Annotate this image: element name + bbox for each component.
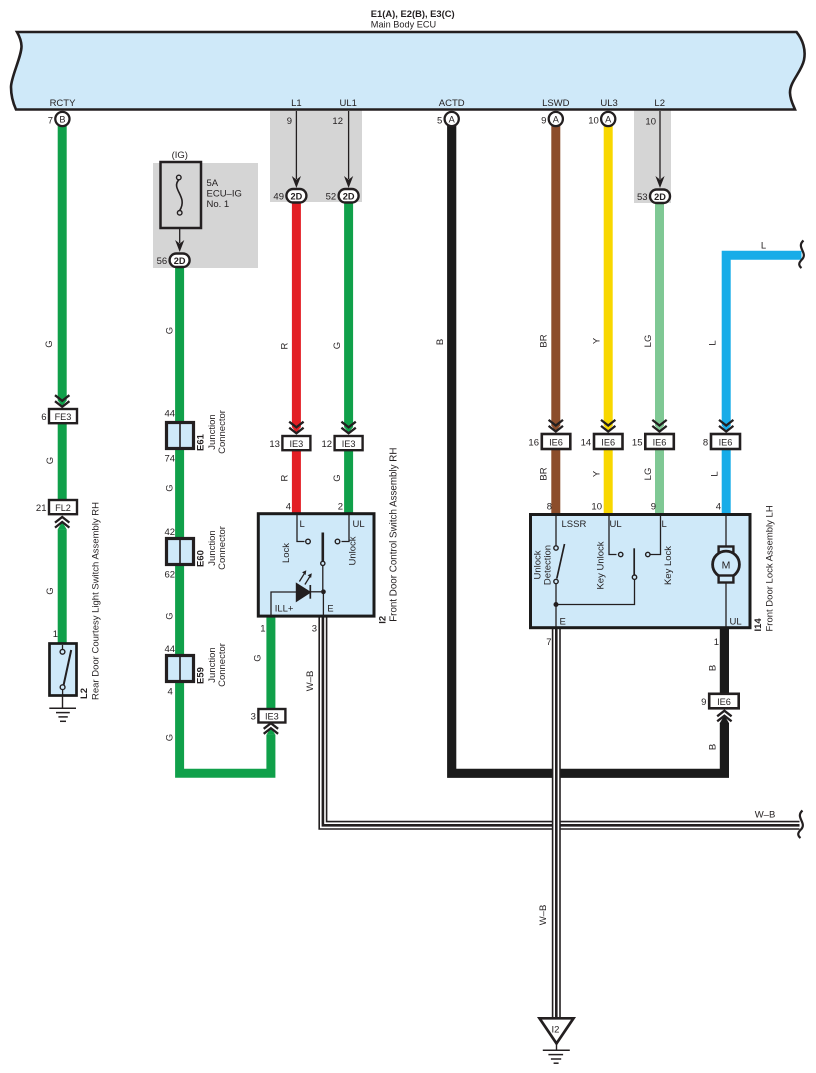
chevrons above 8 IE6 <box>719 420 733 432</box>
chevrons below 9 IE6 <box>717 711 731 722</box>
ground rear door switch <box>49 695 76 721</box>
svg-text:56: 56 <box>157 256 168 267</box>
svg-text:L2: L2 <box>79 688 90 699</box>
svg-text:Key Lock: Key Lock <box>663 546 674 585</box>
svg-text:5A: 5A <box>207 178 219 189</box>
connector 15 IE6 <box>645 434 674 449</box>
svg-text:Y: Y <box>592 337 603 344</box>
connector 13 IE3 <box>282 436 310 450</box>
main body ECU band <box>11 32 805 110</box>
E bus to key switch <box>556 580 635 605</box>
switch blade I2 <box>321 533 324 562</box>
svg-text:10: 10 <box>591 502 602 513</box>
svg-text:ECU–IG: ECU–IG <box>207 189 242 200</box>
svg-text:3: 3 <box>312 624 317 635</box>
svg-text:E60: E60 <box>196 550 207 567</box>
svg-text:E59: E59 <box>196 667 207 684</box>
svg-text:IE3: IE3 <box>342 439 356 449</box>
svg-text:IE6: IE6 <box>719 438 733 448</box>
svg-text:G: G <box>165 484 176 491</box>
svg-text:62: 62 <box>165 570 176 581</box>
motor M <box>725 516 727 547</box>
svg-text:E1(A), E2(B), E3(C): E1(A), E2(B), E3(C) <box>371 8 455 19</box>
connector 12 IE3 <box>335 436 363 450</box>
pin 9 L lead <box>646 552 650 556</box>
svg-text:L: L <box>710 471 721 476</box>
pin 4 L lead <box>297 515 305 542</box>
svg-text:L1: L1 <box>291 98 302 109</box>
svg-text:1: 1 <box>260 624 265 635</box>
svg-text:3: 3 <box>251 712 256 723</box>
svg-text:LSWD: LSWD <box>542 98 570 109</box>
pin 8 LSSR lead <box>555 516 557 546</box>
gray block fuse area <box>153 163 258 268</box>
svg-text:1: 1 <box>53 629 58 640</box>
chevrons above 13 IE3 <box>289 422 303 434</box>
LED arrows <box>299 574 304 582</box>
svg-text:A: A <box>605 115 612 125</box>
wire green riser to ILL+ <box>266 616 275 710</box>
connector 53 2D <box>650 190 670 204</box>
svg-text:BR: BR <box>539 334 550 347</box>
svg-text:2D: 2D <box>343 192 355 202</box>
pin circle 5 A <box>445 112 459 126</box>
wire RCTY green vertical <box>58 122 67 401</box>
svg-text:2: 2 <box>338 502 343 513</box>
svg-text:G: G <box>44 340 55 347</box>
wire W-B from I14 pin 7 to ground <box>552 627 561 1019</box>
svg-text:10: 10 <box>645 117 656 128</box>
chevrons below 3 IE3 <box>264 723 278 734</box>
svg-text:W–B: W–B <box>305 671 316 692</box>
svg-text:7: 7 <box>546 637 551 648</box>
chevrons above 15 IE6 <box>652 420 666 432</box>
svg-text:L: L <box>761 241 766 252</box>
svg-text:Rear Door Courtesy Light Switc: Rear Door Courtesy Light Switch Assembly… <box>91 502 102 700</box>
svg-text:Unlock: Unlock <box>347 536 358 565</box>
svg-text:I2: I2 <box>378 616 389 624</box>
svg-text:UL: UL <box>730 617 742 628</box>
svg-text:ACTD: ACTD <box>439 98 465 109</box>
svg-text:74: 74 <box>165 454 176 465</box>
svg-text:IE6: IE6 <box>653 438 667 448</box>
chevrons below FL2 <box>55 517 69 528</box>
chevrons above 16 IE6 <box>549 420 563 432</box>
svg-text:12: 12 <box>322 439 333 450</box>
svg-text:BR: BR <box>539 467 550 480</box>
ground I2 (bottom) <box>540 1018 574 1063</box>
connector 14 IE6 <box>594 434 623 449</box>
chevrons above FE3 <box>55 395 69 407</box>
svg-text:L: L <box>662 519 667 530</box>
svg-text:RCTY: RCTY <box>50 98 77 109</box>
svg-text:I2: I2 <box>552 1025 560 1036</box>
svg-text:IE3: IE3 <box>265 712 279 722</box>
svg-text:No. 1: No. 1 <box>207 199 230 210</box>
svg-text:M: M <box>722 559 731 571</box>
svg-text:W–B: W–B <box>755 810 776 821</box>
svg-text:E: E <box>327 604 333 615</box>
svg-text:B: B <box>59 115 65 125</box>
svg-text:B: B <box>708 665 719 671</box>
svg-text:44: 44 <box>165 409 176 420</box>
svg-text:IE6: IE6 <box>717 697 731 707</box>
wire B black ACTD <box>452 122 725 773</box>
svg-text:I14: I14 <box>753 618 764 632</box>
wire LG light-green L2 <box>655 196 664 426</box>
connector FL2 <box>49 500 77 514</box>
wire BR brown LSWD <box>551 122 560 426</box>
wire Y yellow UL3 <box>604 122 613 426</box>
svg-text:Key Unlock: Key Unlock <box>596 541 607 589</box>
contact L <box>306 539 311 544</box>
pin 2 UL lead <box>342 515 350 542</box>
svg-text:Connector: Connector <box>217 526 228 570</box>
junction dot E node I14 <box>554 602 559 607</box>
svg-text:G: G <box>332 474 343 481</box>
break symbol blue wire <box>799 241 804 269</box>
svg-text:2D: 2D <box>174 256 186 266</box>
svg-text:LSSR: LSSR <box>562 519 587 530</box>
svg-text:E61: E61 <box>196 433 207 451</box>
svg-text:42: 42 <box>165 527 176 538</box>
svg-text:12: 12 <box>332 116 343 127</box>
svg-text:1: 1 <box>714 637 719 648</box>
wire B black to lock UL pin <box>720 627 729 695</box>
svg-text:G: G <box>45 457 56 464</box>
svg-text:L2: L2 <box>654 98 665 109</box>
junction dot E node <box>321 589 326 594</box>
connector 56 2D <box>170 254 190 268</box>
svg-text:9: 9 <box>287 116 292 127</box>
svg-text:LG: LG <box>643 468 654 481</box>
svg-text:Y: Y <box>592 470 603 477</box>
svg-text:21: 21 <box>36 503 47 514</box>
svg-text:E: E <box>560 617 566 628</box>
connector 16 IE6 <box>542 434 571 449</box>
wire G green UL1 <box>344 196 353 427</box>
break symbol W-B wire right <box>798 811 803 839</box>
LED D1 <box>296 583 310 601</box>
svg-text:10: 10 <box>588 116 599 127</box>
svg-text:13: 13 <box>269 439 280 450</box>
svg-text:9: 9 <box>541 116 546 127</box>
svg-text:G: G <box>165 612 176 619</box>
unlock detection blade <box>557 544 565 579</box>
wire R red L1 <box>292 196 301 427</box>
gray column L2 <box>634 110 671 203</box>
svg-text:A: A <box>449 115 456 125</box>
connector 3 IE3 <box>258 709 285 723</box>
svg-text:G: G <box>253 654 264 661</box>
wire L blue <box>726 255 801 426</box>
chevrons above 12 IE3 <box>341 422 355 434</box>
gray column L1/UL1 <box>270 110 362 202</box>
svg-text:IE6: IE6 <box>549 438 563 448</box>
svg-text:14: 14 <box>581 438 592 449</box>
svg-text:G: G <box>165 327 176 334</box>
svg-text:L: L <box>708 340 719 345</box>
connector FE3 <box>49 409 77 423</box>
front door lock assembly LH box I14 <box>531 515 751 628</box>
wire W-B from I2 pin 3 to right edge <box>323 616 800 825</box>
svg-text:5: 5 <box>437 116 442 127</box>
key switch blade <box>633 548 635 575</box>
svg-text:R: R <box>280 474 291 481</box>
svg-text:Front Door Lock Assembly LH: Front Door Lock Assembly LH <box>765 505 776 631</box>
pin circle 10 A <box>601 112 615 126</box>
svg-text:9: 9 <box>701 697 706 708</box>
svg-text:A: A <box>553 115 560 125</box>
svg-text:4: 4 <box>168 687 173 698</box>
svg-text:B: B <box>435 339 446 345</box>
svg-text:8: 8 <box>547 502 552 513</box>
svg-text:2D: 2D <box>654 192 666 202</box>
svg-text:R: R <box>280 342 291 349</box>
chevrons above 14 IE6 <box>601 420 615 432</box>
connector 49 2D <box>286 189 306 203</box>
svg-text:Connector: Connector <box>217 643 228 687</box>
wire G fuse chain <box>180 262 271 773</box>
pin circle 9 A <box>549 112 563 126</box>
svg-text:(IG): (IG) <box>172 150 188 161</box>
svg-text:FL2: FL2 <box>55 503 71 513</box>
pin 10 UL lead <box>609 516 617 555</box>
front door control switch assembly RH box I2 <box>258 514 374 616</box>
connector 9 IE6 <box>709 694 739 709</box>
svg-text:8: 8 <box>703 438 708 449</box>
svg-text:Main Body ECU: Main Body ECU <box>371 19 436 29</box>
svg-text:6: 6 <box>41 412 46 423</box>
svg-text:53: 53 <box>637 192 648 203</box>
svg-text:UL1: UL1 <box>339 98 356 109</box>
svg-text:G: G <box>45 587 56 594</box>
svg-text:IE3: IE3 <box>290 439 304 449</box>
svg-text:IE6: IE6 <box>601 438 615 448</box>
svg-text:Connector: Connector <box>217 410 228 454</box>
fuse output arrow <box>179 228 181 243</box>
svg-text:44: 44 <box>165 644 176 655</box>
svg-text:W–B: W–B <box>538 905 549 926</box>
contact UL <box>335 539 340 544</box>
svg-text:Front Door Control Switch Asse: Front Door Control Switch Assembly RH <box>389 448 400 622</box>
svg-text:UL: UL <box>610 519 622 530</box>
svg-text:Lock: Lock <box>281 543 292 563</box>
svg-text:UL: UL <box>353 519 365 530</box>
svg-text:9: 9 <box>651 502 656 513</box>
svg-text:FE3: FE3 <box>55 412 72 422</box>
svg-text:16: 16 <box>528 438 539 449</box>
svg-text:49: 49 <box>273 192 284 203</box>
svg-text:Detection: Detection <box>543 545 554 585</box>
pin circle 7 B <box>55 112 69 126</box>
svg-text:UL3: UL3 <box>600 98 617 109</box>
svg-text:15: 15 <box>632 438 643 449</box>
svg-text:2D: 2D <box>291 192 303 202</box>
connector 52 2D <box>339 189 359 203</box>
svg-text:LG: LG <box>643 335 654 348</box>
svg-text:52: 52 <box>326 192 337 203</box>
svg-text:4: 4 <box>286 502 291 513</box>
svg-text:G: G <box>332 342 343 349</box>
svg-text:B: B <box>708 744 719 750</box>
svg-text:L: L <box>300 519 305 530</box>
svg-text:ILL+: ILL+ <box>275 604 294 615</box>
svg-text:G: G <box>165 734 176 741</box>
svg-text:4: 4 <box>716 502 721 513</box>
svg-text:7: 7 <box>48 116 53 127</box>
connector 8 IE6 <box>711 434 740 449</box>
